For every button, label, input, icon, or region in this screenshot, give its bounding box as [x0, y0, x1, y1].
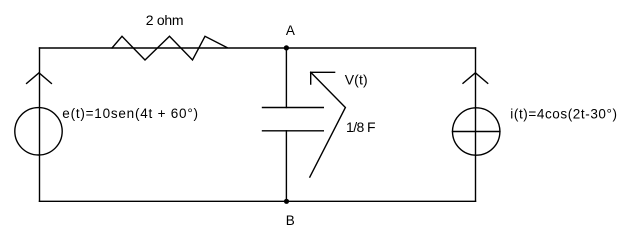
current arrow on right branch	[463, 73, 488, 84]
svg-text:e(t)=10sen(4t + 60°): e(t)=10sen(4t + 60°)	[62, 106, 198, 121]
svg-text:A: A	[286, 23, 295, 38]
wire center upper (node A to capacitor)	[285, 48, 287, 108]
svg-text:B: B	[286, 213, 295, 228]
wire top: node from left source to right source	[40, 47, 476, 49]
V(t) arrowhead barbs	[311, 72, 335, 84]
current source I circle	[453, 108, 500, 155]
resistor R 2 ohm zigzag	[112, 36, 227, 60]
svg-text:2 ohm: 2 ohm	[146, 12, 184, 28]
wire right branch	[475, 48, 477, 201]
node B junction dot	[284, 199, 289, 204]
wire left branch	[39, 48, 41, 201]
svg-text:1/8 F: 1/8 F	[346, 119, 376, 135]
voltage source E circle	[15, 108, 62, 155]
wire center lower (capacitor to node B)	[285, 131, 287, 202]
node A junction dot	[284, 45, 289, 50]
svg-text:i(t)=4cos(2t-30°): i(t)=4cos(2t-30°)	[510, 107, 617, 122]
current source I horizontal bar	[453, 131, 500, 133]
capacitor C 1/8 F top plate	[263, 107, 324, 109]
V(t) arrow shaft	[310, 72, 346, 177]
current arrow on left branch	[27, 73, 52, 84]
capacitor C 1/8 F bottom plate	[263, 130, 324, 132]
wire bottom: node B rail	[40, 200, 476, 202]
svg-text:V(t): V(t)	[345, 71, 368, 87]
